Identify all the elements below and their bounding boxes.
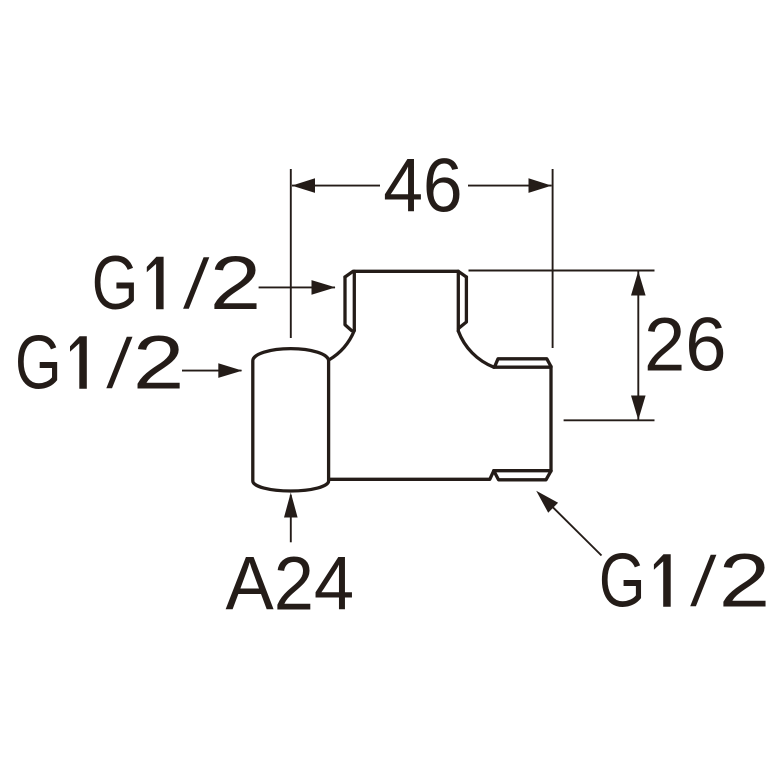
top port left root line	[353, 271, 356, 330]
svg-text:G: G	[15, 319, 62, 405]
dim 26 top extension line	[469, 270, 655, 272]
svg-text:G: G	[92, 240, 139, 326]
arrow line G1/2 top left	[259, 286, 335, 288]
arrowhead dim 46 left	[292, 178, 315, 193]
right port bottom thread crest band	[494, 471, 551, 480]
arrowhead dim 26 bottom	[631, 396, 646, 421]
dim 46 right extension line	[552, 169, 554, 348]
arrowhead G1/2 bottom right	[536, 491, 558, 513]
svg-text:2: 2	[133, 319, 184, 405]
top port left crest line	[345, 277, 352, 331]
arrowhead G1/2 left	[218, 363, 242, 378]
dim 26 bottom extension line	[564, 419, 655, 421]
dim 26 line	[637, 271, 639, 420]
svg-text:46: 46	[383, 144, 463, 229]
dim 46 line right segment	[468, 185, 552, 187]
arrow line G1/2 left	[182, 370, 242, 372]
top port right root line	[457, 271, 460, 331]
arrow line G1/2 bottom right	[539, 494, 602, 556]
arrowhead A24	[284, 493, 298, 518]
right port end edge	[549, 367, 552, 472]
arrowhead dim 26 top	[631, 271, 646, 296]
right shoulder curve from top port to right port	[458, 331, 494, 367]
svg-text:2: 2	[210, 240, 261, 326]
svg-text:2: 2	[719, 537, 770, 623]
right port top thread crest band	[495, 359, 552, 367]
top port end face with chamfers	[345, 271, 466, 277]
svg-text:26: 26	[644, 303, 727, 388]
svg-text:G: G	[599, 537, 646, 623]
arrowhead G1/2 top left	[312, 280, 336, 295]
arrowhead dim 46 right	[529, 178, 552, 193]
left shoulder curve from top port to cylinder	[329, 331, 355, 361]
left cylinder port (A24)	[253, 349, 329, 491]
right port bottom root line	[494, 469, 551, 472]
arrow line A24	[290, 495, 292, 542]
top port right crest line	[459, 277, 467, 328]
right port top root line	[494, 366, 551, 369]
svg-text:A24: A24	[226, 542, 355, 627]
body bottom line with thread runout notch	[326, 471, 494, 480]
dim 46 line left segment	[292, 185, 380, 187]
dim 46 left extension line	[290, 169, 292, 338]
